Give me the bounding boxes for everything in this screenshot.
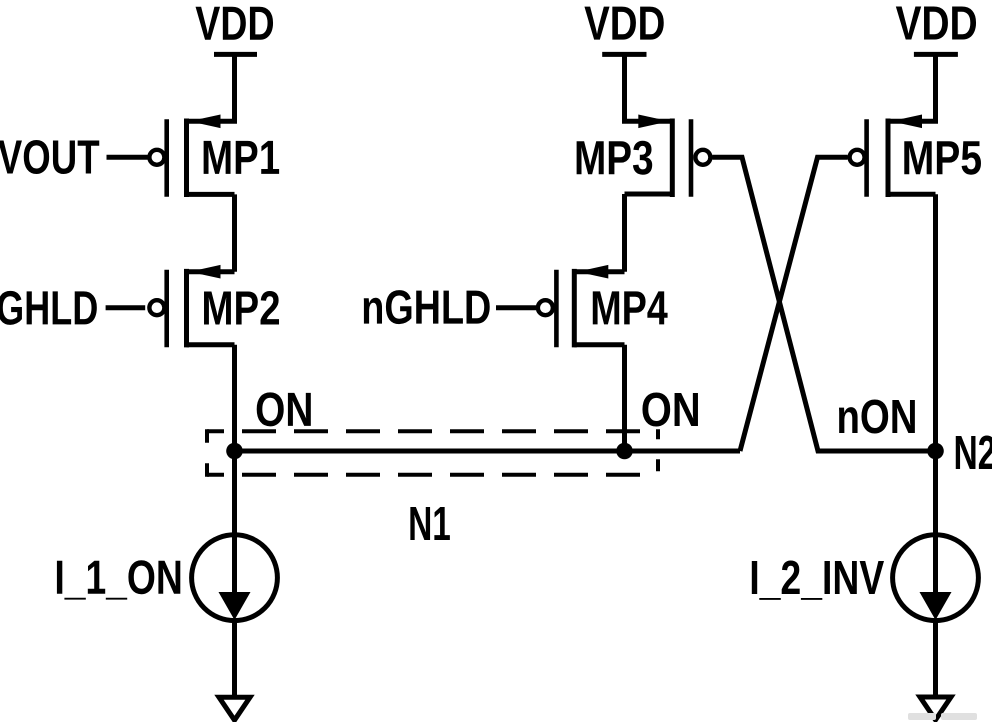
MP2 channel bar (184, 269, 189, 348)
net label nON (nON) (839, 400, 915, 434)
dashed box N1: right edge (656, 429, 660, 477)
dashed box N1: top edge (207, 429, 658, 433)
net label GHLD (GHLD) (0, 291, 97, 325)
MP5 gate bar (864, 119, 869, 197)
net label VDD (VDD1) (196, 7, 274, 40)
wire node ON to crossover (horizontal) (235, 449, 741, 454)
MP2 source lead (187, 269, 235, 274)
wire I_1_ON to ground (232, 621, 237, 698)
net label ON (ON1) (257, 392, 311, 426)
MP1 source arrow (190, 115, 221, 129)
net label I_1_ON (I1ON) (57, 560, 180, 599)
ground (left) (219, 697, 250, 720)
transistor MP4 (538, 265, 625, 348)
MP1 gate bubble (149, 150, 164, 165)
dashed box N1: bottom edge (207, 473, 658, 477)
wire VOUT to MP1 gate (107, 155, 148, 160)
MP5 source arrow (891, 115, 922, 129)
wire cross-couple: MP3 gate to node N2 (712, 157, 935, 451)
MP4 source lead (574, 269, 624, 274)
net label MP2 (MP2) (204, 291, 279, 325)
wire VDD to MP5 source (888, 54, 936, 121)
wire MP1 drain to MP2 source (232, 194, 237, 271)
MP2 source arrow (190, 265, 221, 279)
wire VDD to MP1 source (187, 54, 235, 121)
MP3 channel bar (670, 119, 675, 198)
transistor MP1 (149, 115, 234, 198)
node junction dot middle ON (616, 443, 633, 460)
MP3 source arrow (638, 115, 669, 129)
I_2_INV arrow (920, 592, 952, 620)
MP3 gate bubble (695, 150, 710, 165)
I_1_ON arrow (219, 592, 251, 620)
net label nGHLD (nGHLD) (364, 290, 490, 324)
MP5 gate bubble (850, 150, 865, 165)
transistor MP5 (850, 115, 936, 198)
net label VDD (VDD3) (896, 7, 976, 40)
node junction dot left ON (226, 443, 243, 460)
wire VDD to MP3 source (625, 54, 673, 121)
MP5 channel bar (886, 119, 891, 198)
MP3 gate bar (689, 119, 694, 197)
MP4 channel bar (572, 269, 577, 348)
MP4 gate bubble (538, 300, 553, 315)
MP4 drain lead (574, 342, 624, 347)
net label N1 (N1) (410, 507, 450, 540)
net label I_2_INV (I2INV) (752, 561, 884, 600)
net label MP3 (MP3) (577, 141, 653, 175)
MP2 gate bubble (149, 300, 164, 315)
I_2_INV circle (893, 535, 979, 621)
transistor MP2 (149, 265, 234, 348)
net label MP1 (MP1) (204, 141, 279, 174)
MP1 gate bar (164, 119, 169, 197)
wire I_2_INV to ground (933, 621, 938, 698)
MP1 channel bar (184, 119, 189, 198)
MP1 drain lead (187, 192, 235, 197)
wire GHLD to MP2 gate (106, 305, 146, 310)
power symbol VDD bar (right) (914, 52, 958, 57)
wire cross-couple: MP5 gate to node N1 (740, 157, 848, 451)
power symbol VDD bar (left) (214, 52, 257, 57)
MP2 gate bar (164, 270, 169, 348)
MP5 drain lead (888, 192, 936, 197)
wire MP3 drain to MP4 source (622, 194, 627, 272)
I_1_ON circle (192, 535, 278, 621)
net label ON (ON2) (642, 393, 698, 427)
I_2_INV internal wire (933, 535, 938, 610)
current source I_2_INV (893, 535, 979, 621)
wire MP2 drain down to current source I_1_ON (232, 345, 237, 535)
net label VDD (VDD2) (584, 7, 663, 40)
net label N2 (N2) (956, 436, 992, 470)
node N2 junction dot (927, 443, 944, 460)
net label MP5 (MP5) (904, 141, 981, 175)
MP3 drain lead (625, 192, 673, 197)
dashed box N1: left edge (205, 429, 209, 477)
power symbol VDD bar (middle) (602, 52, 646, 57)
I_1_ON internal wire (232, 535, 237, 610)
MP4 gate bar (554, 270, 559, 348)
current source I_1_ON (192, 535, 278, 621)
wire MP4 drain to node ON (622, 345, 627, 451)
net label MP4 (MP4) (593, 291, 668, 324)
watermark remnant (908, 713, 977, 720)
MP4 source arrow (577, 265, 608, 279)
transistor MP3 (mirrored) (625, 115, 711, 198)
wire MP5 drain to current source I_2_INV (933, 194, 938, 535)
net label VOUT (VOUT) (0, 140, 99, 174)
MP2 drain lead (187, 342, 235, 347)
ground (right) (920, 697, 951, 720)
wire nGHLD to MP4 gate (496, 305, 536, 310)
